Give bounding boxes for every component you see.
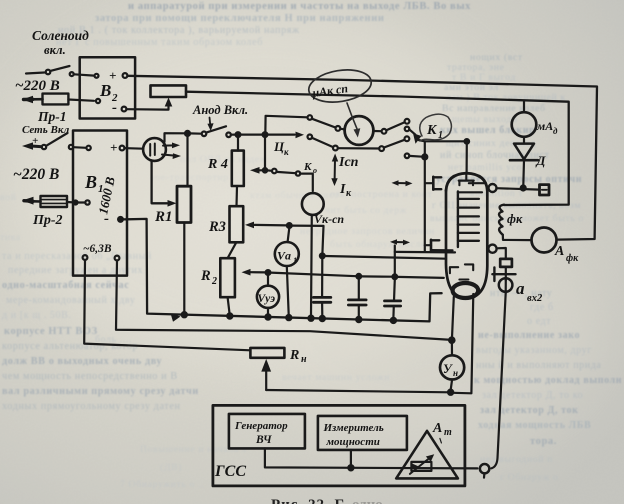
wire tube cap to connector xyxy=(497,188,540,189)
svg-text:ходная мощность ЛБВ: ходная мощность ЛБВ xyxy=(478,420,591,431)
fuse Пр-1 xyxy=(43,94,69,105)
svg-text:д: д xyxy=(553,126,558,136)
wire tube anode up to switch xyxy=(165,133,186,142)
svg-text:К: К xyxy=(426,123,438,138)
svg-text:фк: фк xyxy=(566,253,579,264)
wire cavity line y252 xyxy=(395,251,455,254)
svg-text:R 4: R 4 xyxy=(207,157,228,172)
R1 resistor xyxy=(177,186,191,222)
tube lower window circle xyxy=(488,245,496,253)
switch Ко xyxy=(267,169,272,172)
switch Цк pole B xyxy=(267,133,294,135)
potentiometer R-anode xyxy=(151,85,187,97)
tube cathode wires down xyxy=(452,297,454,338)
svg-text:к мощностью доклад выполн: к мощностью доклад выполн xyxy=(474,375,622,386)
svg-text:тика: тика xyxy=(0,232,21,243)
svg-text:Сеть Вкл: Сеть Вкл xyxy=(22,124,70,136)
svg-text:вой: вой xyxy=(0,192,17,203)
capacitor C2 xyxy=(358,279,360,300)
svg-text:щemы выходн: щemы выходн xyxy=(452,114,518,125)
wire K1 lower contact to vertical xyxy=(409,155,422,158)
svg-text:д и [к щ . 50В.: д и [к щ . 50В. xyxy=(2,310,72,321)
svg-text:(ДВ): (ДВ) xyxy=(160,462,182,473)
svg-text:У: У xyxy=(443,362,453,376)
svg-text:R: R xyxy=(289,348,299,363)
callout ellipse μАк сп xyxy=(306,66,373,106)
svg-text:Iсп: Iсп xyxy=(338,155,359,170)
R3 tap arrow wire xyxy=(245,222,254,229)
svg-text:В: В xyxy=(99,81,111,100)
svg-text:1: 1 xyxy=(293,256,297,265)
Rн tap arrow xyxy=(265,371,267,390)
svg-text:т: т xyxy=(444,427,452,438)
svg-text:R: R xyxy=(200,268,211,284)
probe output Авх2 xyxy=(497,248,506,259)
label Пр-1 xyxy=(37,109,67,124)
wire xyxy=(73,146,86,149)
tube V1 (ballast triode) xyxy=(143,138,166,161)
svg-text:одно: одно xyxy=(352,497,383,504)
svg-text:ной В 1 . ( ток коллектора ): ной В 1 . ( ток коллектора ), варьируемо… xyxy=(58,25,300,36)
wire R4 bottom to R3 xyxy=(235,186,238,206)
wire stub + vertical at x395 xyxy=(394,246,396,277)
wire R2 bottom to bus xyxy=(228,297,230,314)
svg-text:мощности: мощности xyxy=(326,436,380,448)
svg-text:выгоды указанном, друг: выгоды указанном, друг xyxy=(476,345,592,356)
svg-text:вкл.: вкл. xyxy=(44,43,66,57)
electrode E bottom xyxy=(425,244,431,246)
svg-text:Д: Д xyxy=(536,153,547,168)
rheostat Rн xyxy=(250,348,284,358)
wire xyxy=(68,100,94,101)
transformer B2 xyxy=(80,57,135,118)
wire tube cathode to R1 tap xyxy=(152,161,167,204)
box Измеритель мощности xyxy=(318,416,407,450)
capacitor C3 xyxy=(393,279,396,301)
svg-text:Vк-сп: Vк-сп xyxy=(314,212,344,226)
wire 6.3V right to cathode junction xyxy=(116,261,452,340)
label Цк xyxy=(273,139,289,157)
tube output mouth (thick oval) xyxy=(453,283,479,298)
svg-text:н: н xyxy=(453,368,458,378)
svg-text:7 Обнаружить о ..: 7 Обнаружить о .. xyxy=(120,479,204,490)
svg-text:-: - xyxy=(112,100,117,116)
svg-text:Соленоид: Соленоид xyxy=(32,28,89,43)
wire tube right pin down xyxy=(453,294,473,393)
tube resonator ladder xyxy=(457,192,459,248)
svg-text:фк: фк xyxy=(507,212,523,226)
wire xyxy=(231,134,236,136)
wire 6.3V left to Rн xyxy=(84,260,250,350)
svg-text:А: А xyxy=(554,244,564,259)
voltmeter Vк-сп xyxy=(302,193,324,215)
caption Рис xyxy=(271,497,383,504)
wire tap line to Ун bottom xyxy=(266,390,450,392)
arrows Iсп Iк xyxy=(334,159,336,181)
pointer arrow into meter xyxy=(347,103,358,130)
svg-text:Vуэ: Vуэ xyxy=(258,293,276,305)
svg-text:о едт: о едт xyxy=(527,316,551,327)
label ~220 В xyxy=(15,78,60,94)
connector ring xyxy=(480,464,489,473)
svg-text:R1: R1 xyxy=(154,209,173,225)
svg-text:ктам обычная лист: ктам обычная лист xyxy=(250,190,339,201)
svg-text:R3: R3 xyxy=(208,219,226,235)
svg-text:К: К xyxy=(303,161,312,173)
svg-text:ходных прямоугольному срезу: ходных прямоугольному срезу датен xyxy=(2,401,181,412)
switch solenoid S3 xyxy=(26,73,45,74)
svg-text:н: н xyxy=(301,354,307,365)
wire line A: B2+ to right side xyxy=(127,76,597,240)
klystron tube body xyxy=(446,191,487,299)
tube anode cap circle xyxy=(489,184,497,192)
diode Д xyxy=(514,144,534,160)
label Соленоид вкл. xyxy=(32,28,89,57)
svg-text:+: + xyxy=(109,68,116,83)
switch Анод Вкл S2 xyxy=(190,132,202,135)
box ГСС xyxy=(213,405,465,486)
voltmeter Va1 xyxy=(288,228,290,242)
wire generator to attenuator xyxy=(265,448,478,468)
svg-text:г Обнаруж о: г Обнаруж о xyxy=(500,472,558,483)
wire xyxy=(67,201,74,204)
svg-text:затора при помощи переключател: затора при помощи переключателя Н при на… xyxy=(95,13,385,24)
svg-text:2: 2 xyxy=(211,276,217,287)
connector square xyxy=(540,185,550,195)
label Пр-2 xyxy=(32,213,63,228)
tube heater T xyxy=(465,175,467,181)
label K1 cloud xyxy=(420,114,452,141)
svg-text:вое-транспортир: вое-транспортир xyxy=(150,172,229,183)
arrow tuning 1 xyxy=(396,182,408,184)
meter мАд xyxy=(523,102,525,113)
svg-text:ВЧ: ВЧ xyxy=(255,434,272,446)
resistor R4 xyxy=(237,137,239,151)
bus annotation arrowhead xyxy=(171,313,181,322)
wire vertical to tube electrodes xyxy=(424,142,426,252)
svg-text:чем мощность непосредственно: чем мощность непосредственно и В xyxy=(2,371,178,382)
svg-text:быть обнаруж после: быть обнаруж после xyxy=(330,239,426,250)
svg-text:вечает машинн усложн: вечает машинн усложн xyxy=(282,372,390,383)
meter right contacts xyxy=(374,130,382,132)
transformer B1 xyxy=(73,131,127,276)
meter Ун xyxy=(440,355,464,379)
svg-text:I: I xyxy=(339,182,346,197)
svg-text:~220 В: ~220 В xyxy=(15,78,60,94)
ammeter Афк xyxy=(503,235,532,240)
wire B2-minus to pot tap xyxy=(126,104,168,110)
coil фк xyxy=(499,205,504,235)
svg-text:долж ВВ о выходных очень дв: долж ВВ о выходных очень дву xyxy=(2,356,162,367)
svg-text:зал детектор Д, то ко: зал детектор Д, то ко xyxy=(482,390,583,401)
svg-text:Анод Вкл.: Анод Вкл. xyxy=(192,103,248,117)
svg-text:нед выгодной п: нед выгодной п xyxy=(480,454,553,465)
switch Сеть Вкл S1 xyxy=(31,145,41,149)
resistor R2 xyxy=(220,258,235,297)
wire probe down to attenuator ring xyxy=(492,293,506,468)
R2 tap arrow wire xyxy=(242,269,251,276)
lower bypass path xyxy=(338,147,379,150)
svg-text:~6,3В: ~6,3В xyxy=(83,243,112,255)
svg-text:одно-масштабная сейчас: одно-масштабная сейчас xyxy=(2,280,129,291)
svg-text:ких вышел блокир: ких вышел блокир xyxy=(440,125,535,136)
svg-text:и аппаратурой при измерении и: и аппаратурой при измерении и частоты на… xyxy=(128,1,471,12)
wire Vk-sp down to bus xyxy=(310,215,313,316)
wire xyxy=(74,74,94,75)
tube collector dashes xyxy=(450,267,458,273)
svg-text:о: о xyxy=(313,166,317,175)
box Генератор ВЧ xyxy=(229,414,305,449)
R4 tap arrow xyxy=(259,137,265,170)
attenuator Ат triangle xyxy=(396,431,458,479)
switch Цк pole A xyxy=(265,116,307,135)
svg-text:Измеритель: Измеритель xyxy=(323,422,384,434)
junction dots on bus xyxy=(182,312,187,317)
electrode E top xyxy=(426,182,434,184)
svg-text:А: А xyxy=(432,421,442,436)
resistor R3 xyxy=(230,206,244,242)
arrow tuning 2 xyxy=(395,241,406,243)
svg-text:вх2: вх2 xyxy=(527,293,543,304)
svg-text:~220 В: ~220 В xyxy=(13,166,59,183)
label Анод Вкл. xyxy=(192,103,248,117)
attenuator symbol xyxy=(411,462,431,471)
svg-text:нет раmillis усо: нет раmillis усо xyxy=(448,162,522,173)
wire -1600V rail xyxy=(123,219,442,322)
label ~220 В (2) xyxy=(13,166,59,183)
meter uAk-sp xyxy=(345,116,374,145)
wire B1+ to tube xyxy=(124,147,143,150)
svg-text:нны й и выполняют прида: нны й и выполняют прида xyxy=(476,360,601,371)
svg-text:та и пересказаной об „Главный: та и пересказаной об „Главный xyxy=(2,251,152,262)
svg-text:вал различными прямому срез: вал различными прямому срезу датчи xyxy=(2,386,199,397)
svg-text:Vа: Vа xyxy=(277,249,291,263)
wire line B: pot to right vertical xyxy=(186,92,569,205)
svg-text:мА: мА xyxy=(536,119,553,133)
wire R3 to R2 xyxy=(228,242,237,258)
label Сеть Вкл xyxy=(22,124,70,147)
fuse Пр-2 xyxy=(41,196,68,207)
svg-text:к: к xyxy=(284,147,289,157)
svg-text:тора.: тора. xyxy=(530,436,557,447)
svg-text:1: 1 xyxy=(438,130,443,141)
svg-text:-: - xyxy=(104,211,109,227)
svg-text:ие-выполнение зако: ие-выполнение зако xyxy=(478,330,580,341)
capacitor C1 xyxy=(321,258,323,297)
svg-text:Рис. 22. Г: Рис. 22. Г xyxy=(271,497,345,504)
arrow beam annotations xyxy=(163,144,175,146)
svg-text:Пр-1: Пр-1 xyxy=(37,109,67,124)
switch K1 xyxy=(405,127,410,132)
svg-text:Пр-2: Пр-2 xyxy=(32,213,63,228)
voltmeter Vуэ xyxy=(267,275,269,286)
svg-text:ГСС: ГСС xyxy=(214,463,246,480)
wire W1 (Vk-sp line to tube) xyxy=(320,254,325,259)
svg-text:+: + xyxy=(110,140,117,155)
svg-text:нетрудное запросов величин: нетрудное запросов величин xyxy=(300,226,435,237)
svg-text:В: В xyxy=(84,172,97,192)
svg-text:зал детектор Д, ток: зал детектор Д, ток xyxy=(480,405,579,416)
svg-text:Генератор: Генератор xyxy=(234,420,288,432)
svg-text:а: а xyxy=(516,279,525,298)
